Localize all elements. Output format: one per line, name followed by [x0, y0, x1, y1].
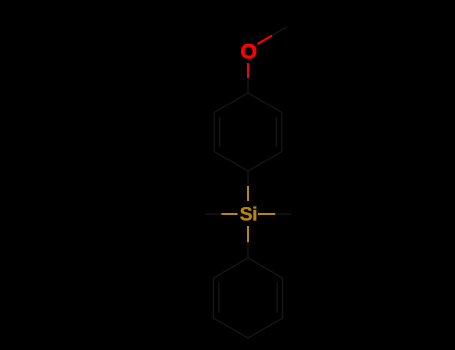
wire: ring to Si bond, silicon half	[247, 186, 249, 201]
top ring: cyclohexadiene hexagon	[214, 93, 282, 171]
wire: O to ring bond, carbon half	[247, 78, 249, 93]
wire: top ring edge UR-LR	[281, 113, 283, 152]
bottom ring: cyclohexadiene hexagon	[213, 258, 282, 338]
wire: bottom ring edge UR-LR	[282, 278, 284, 318]
wire: top ring edge T-UR	[248, 93, 282, 113]
wire: bottom ring double bond inner line right	[276, 283, 278, 313]
wire: bottom ring edge LL-UL	[212, 278, 214, 318]
wire: bottom ring edge B-LL	[213, 318, 248, 338]
wire: bottom ring double bond inner line left	[218, 283, 220, 313]
wire: Si to bottom ring bond, silicon half	[247, 226, 249, 242]
wire: Si right methyl bond, carbon half	[275, 213, 291, 215]
wire: Si right methyl bond, silicon half	[258, 213, 275, 215]
wire: Si left methyl bond, carbon half	[205, 213, 221, 215]
wire: methoxy C-O bond upper diagonal, oxygen half	[258, 36, 273, 45]
wire: top ring edge LR-B	[248, 152, 282, 172]
wire: bottom ring edge T-UR	[248, 258, 283, 278]
wire: ring to Si bond, carbon half	[247, 171, 249, 186]
wire: methoxy C-O bond upper diagonal, carbon half	[272, 27, 287, 36]
wire: top ring edge LL-UL	[213, 113, 215, 152]
wire: O to ring bond, oxygen half	[247, 63, 249, 78]
svg-text:O: O	[240, 39, 257, 63]
wire: top ring edge UL-T	[214, 93, 248, 113]
wire: bottom ring edge UL-T	[213, 258, 248, 278]
wire: Si to bottom ring bond, carbon half	[247, 242, 249, 258]
wire: top ring double bond inner line left	[219, 118, 221, 147]
wire: top ring edge B-LL	[214, 152, 248, 172]
wire: bottom ring edge LR-B	[248, 318, 283, 338]
wire: top ring double bond inner line right	[275, 118, 277, 147]
wire: Si left methyl bond, silicon half	[221, 213, 237, 215]
svg-text:Si: Si	[240, 204, 258, 226]
